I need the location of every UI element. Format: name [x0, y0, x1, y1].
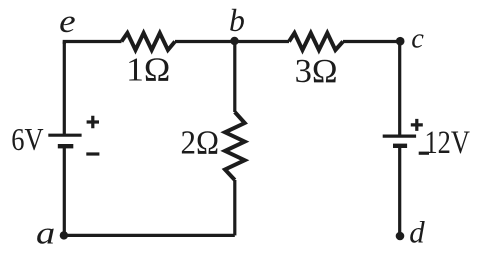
- svg-text:2Ω: 2Ω: [181, 125, 220, 162]
- svg-text:b: b: [229, 2, 245, 38]
- wire bottom (node a to middle branch): [64, 234, 235, 237]
- resistor 3Ω zigzag: [289, 33, 343, 50]
- battery 6V plus sign: [87, 116, 99, 128]
- node c junction dot: [396, 37, 405, 46]
- resistor 2Ω zigzag: [225, 112, 245, 180]
- svg-text:6V: 6V: [11, 122, 44, 157]
- wire 1-ohm to node b: [175, 40, 235, 43]
- svg-text:12V: 12V: [425, 125, 470, 161]
- svg-text:1Ω: 1Ω: [126, 51, 170, 88]
- wire top-left corner: e to 1-ohm: [64, 42, 121, 45]
- svg-text:a: a: [36, 216, 55, 251]
- wire right vertical upper (c down to 12V battery): [398, 42, 401, 137]
- battery 6V minus sign: [86, 152, 99, 155]
- svg-text:e: e: [59, 4, 76, 40]
- battery 12V long plate (+): [383, 135, 416, 138]
- svg-text:3Ω: 3Ω: [295, 53, 338, 90]
- wire middle vertical lower (2-ohm to bottom wire): [233, 180, 236, 235]
- battery 12V minus sign: [419, 152, 429, 155]
- node d junction dot: [396, 232, 405, 241]
- wire left vertical upper (e down to 6V battery): [63, 42, 66, 136]
- wire right vertical lower (battery to node d): [398, 146, 401, 236]
- wire left vertical lower (battery to node a): [63, 146, 66, 235]
- battery 6V long plate (+): [48, 134, 81, 137]
- resistor 1Ω zigzag: [122, 33, 176, 50]
- node a junction dot: [60, 231, 68, 239]
- wire middle vertical upper (b down to 2-ohm): [233, 42, 236, 113]
- svg-text:d: d: [409, 216, 425, 250]
- svg-text:c: c: [411, 24, 424, 55]
- battery 6V short plate (-): [58, 144, 74, 148]
- battery 12V plus sign: [411, 119, 423, 131]
- node b junction dot: [230, 37, 238, 45]
- wire node b to 3-ohm: [235, 40, 290, 43]
- battery 12V short plate (-): [393, 144, 407, 148]
- wire 3-ohm to node c corner: [343, 42, 400, 45]
